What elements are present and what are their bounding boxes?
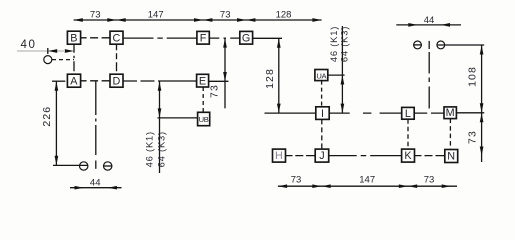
centerline between A-D down to circles xyxy=(95,81,97,158)
svg-text:A: A xyxy=(70,75,78,87)
wire C to F centerline xyxy=(123,37,197,39)
box D xyxy=(110,74,123,87)
arrow left tip at B column xyxy=(74,18,83,22)
box I xyxy=(316,107,329,120)
svg-text:I: I xyxy=(321,108,324,120)
mounting circle left 2 xyxy=(104,162,112,170)
wire J to K centerline xyxy=(329,155,402,157)
128 vertical dimension line xyxy=(278,38,280,113)
svg-text:E: E xyxy=(199,75,206,87)
box N xyxy=(445,150,458,163)
bowtie at F column xyxy=(194,18,203,22)
svg-text:128: 128 xyxy=(264,68,276,89)
reference line from G to 128 dim xyxy=(253,37,282,39)
svg-text:73: 73 xyxy=(424,175,435,186)
wire UA to I dashed xyxy=(321,81,323,107)
K1/K3 reference line to UB xyxy=(158,117,198,119)
box UA xyxy=(315,70,328,81)
svg-text:73: 73 xyxy=(220,9,231,20)
tick from E to 73 dim xyxy=(209,80,229,82)
svg-text:B: B xyxy=(70,32,77,44)
centerline from circles down to L-M row xyxy=(428,52,430,112)
wire B to A dash-dot xyxy=(73,44,75,74)
diameter line circle 2 xyxy=(103,165,112,167)
bowtie at J column xyxy=(312,184,321,188)
arrow left tip at H column xyxy=(278,184,287,188)
40 dim arrow right xyxy=(65,49,74,53)
box J xyxy=(315,149,329,162)
svg-text:M: M xyxy=(446,107,455,119)
wire I to J dashed xyxy=(321,119,323,149)
bottom-left base line xyxy=(53,164,88,166)
bowtie at G column xyxy=(237,18,246,22)
box C xyxy=(110,31,123,44)
diameter line circle right 1 xyxy=(413,44,422,46)
wire L to M with centerline gap xyxy=(414,112,444,114)
center tick between circles xyxy=(95,161,97,169)
dashed wire from circle to B-A column xyxy=(52,59,74,61)
svg-text:44: 44 xyxy=(424,15,435,26)
mounting circle top-right 2 xyxy=(437,41,445,49)
box H xyxy=(273,149,286,162)
wire H to J dashed xyxy=(286,155,316,157)
svg-text:147: 147 xyxy=(148,9,164,20)
row3 reference line left of I xyxy=(265,112,316,114)
svg-text:73: 73 xyxy=(208,84,220,98)
svg-text:40: 40 xyxy=(21,39,37,51)
mounting circle left 1 xyxy=(80,162,88,170)
K1/K3 right dimension line xyxy=(341,26,343,113)
svg-text:C: C xyxy=(112,32,120,44)
wire C to D dash-dot xyxy=(116,44,118,74)
svg-text:G: G xyxy=(242,32,250,44)
wire B to C dashed xyxy=(81,37,110,39)
svg-text:128: 128 xyxy=(276,9,292,20)
44 dimension bottom-left xyxy=(70,187,122,189)
108 / 73 right dimension line xyxy=(481,45,483,162)
svg-text:L: L xyxy=(405,108,411,120)
wire F to G centerline xyxy=(209,37,240,39)
73 vertical dimension near E xyxy=(224,39,226,109)
svg-text:64 (K3): 64 (K3) xyxy=(339,26,350,62)
svg-text:N: N xyxy=(447,151,455,163)
226 dimension tick at A row xyxy=(52,80,65,82)
box G xyxy=(240,31,253,44)
tick from UA to K1/K3 right dim xyxy=(328,74,345,76)
svg-text:J: J xyxy=(319,150,324,162)
svg-text:46 (K1): 46 (K1) xyxy=(328,26,339,62)
44 dimension top-right xyxy=(396,24,461,26)
wire M to N dashed xyxy=(449,119,451,150)
tick from M to right dim line xyxy=(456,112,484,114)
box UB xyxy=(198,112,210,125)
top dimension line 73/147/73/128 xyxy=(74,19,322,21)
box F xyxy=(197,31,209,44)
center tick between top-right circles xyxy=(428,41,430,49)
svg-text:73: 73 xyxy=(467,130,479,144)
svg-text:108: 108 xyxy=(466,66,478,87)
bowtie at K column xyxy=(399,184,408,188)
svg-text:73: 73 xyxy=(90,9,101,20)
box M xyxy=(444,107,456,119)
svg-text:UB: UB xyxy=(199,115,209,124)
mounting circle top-right 1 xyxy=(414,41,422,49)
svg-text:UA: UA xyxy=(316,71,327,80)
tick at circle column for 40 dim xyxy=(47,48,49,54)
40 dim arrow left xyxy=(48,49,57,53)
wire E to UB dashed xyxy=(202,87,204,112)
svg-text:D: D xyxy=(112,75,120,87)
wire L to K dashed xyxy=(407,119,409,149)
svg-text:44: 44 xyxy=(90,177,101,188)
box A xyxy=(67,74,80,87)
wire D to E centerline xyxy=(123,80,197,82)
226 dimension line xyxy=(55,81,57,165)
arrow right tip at x=321.5 xyxy=(312,18,321,22)
bowtie at C column xyxy=(107,18,116,22)
reference line from circle 2 to 108 dim xyxy=(437,44,485,46)
svg-text:73: 73 xyxy=(291,175,302,186)
box B xyxy=(67,31,80,44)
box E xyxy=(197,74,209,87)
svg-text:H: H xyxy=(275,150,283,162)
box K xyxy=(402,149,415,162)
K1/K3 left dimension line xyxy=(159,81,161,173)
bottom dimension line 73/147/73 xyxy=(278,185,457,187)
wire K to N dashed xyxy=(415,155,445,157)
wire A to D dashed xyxy=(81,80,110,82)
arrow right tip at N column xyxy=(442,184,451,188)
wire I to L centerline xyxy=(329,112,402,114)
locating circle top-left xyxy=(44,56,52,64)
svg-text:F: F xyxy=(200,32,207,44)
svg-text:K: K xyxy=(404,150,412,162)
leader line gray for 40 xyxy=(17,50,64,52)
svg-text:147: 147 xyxy=(359,175,375,186)
svg-text:226: 226 xyxy=(41,106,53,127)
svg-text:64 (K3): 64 (K3) xyxy=(156,131,167,167)
box L xyxy=(402,107,415,119)
svg-text:46 (K1): 46 (K1) xyxy=(144,131,155,167)
